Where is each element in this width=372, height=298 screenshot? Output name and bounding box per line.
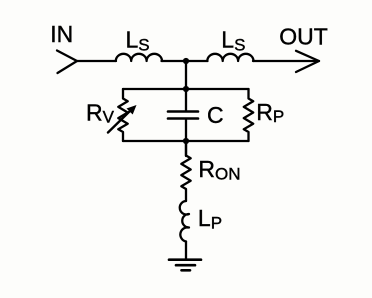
svg-text:LP: LP (198, 205, 222, 232)
svg-text:LS: LS (126, 27, 150, 55)
svg-text:IN: IN (50, 21, 73, 47)
svg-text:RON: RON (198, 156, 240, 184)
svg-text:RP: RP (256, 99, 284, 126)
svg-text:RV: RV (86, 100, 115, 127)
svg-text:LS: LS (221, 27, 245, 55)
svg-text:C: C (207, 102, 224, 128)
svg-text:OUT: OUT (279, 24, 328, 50)
